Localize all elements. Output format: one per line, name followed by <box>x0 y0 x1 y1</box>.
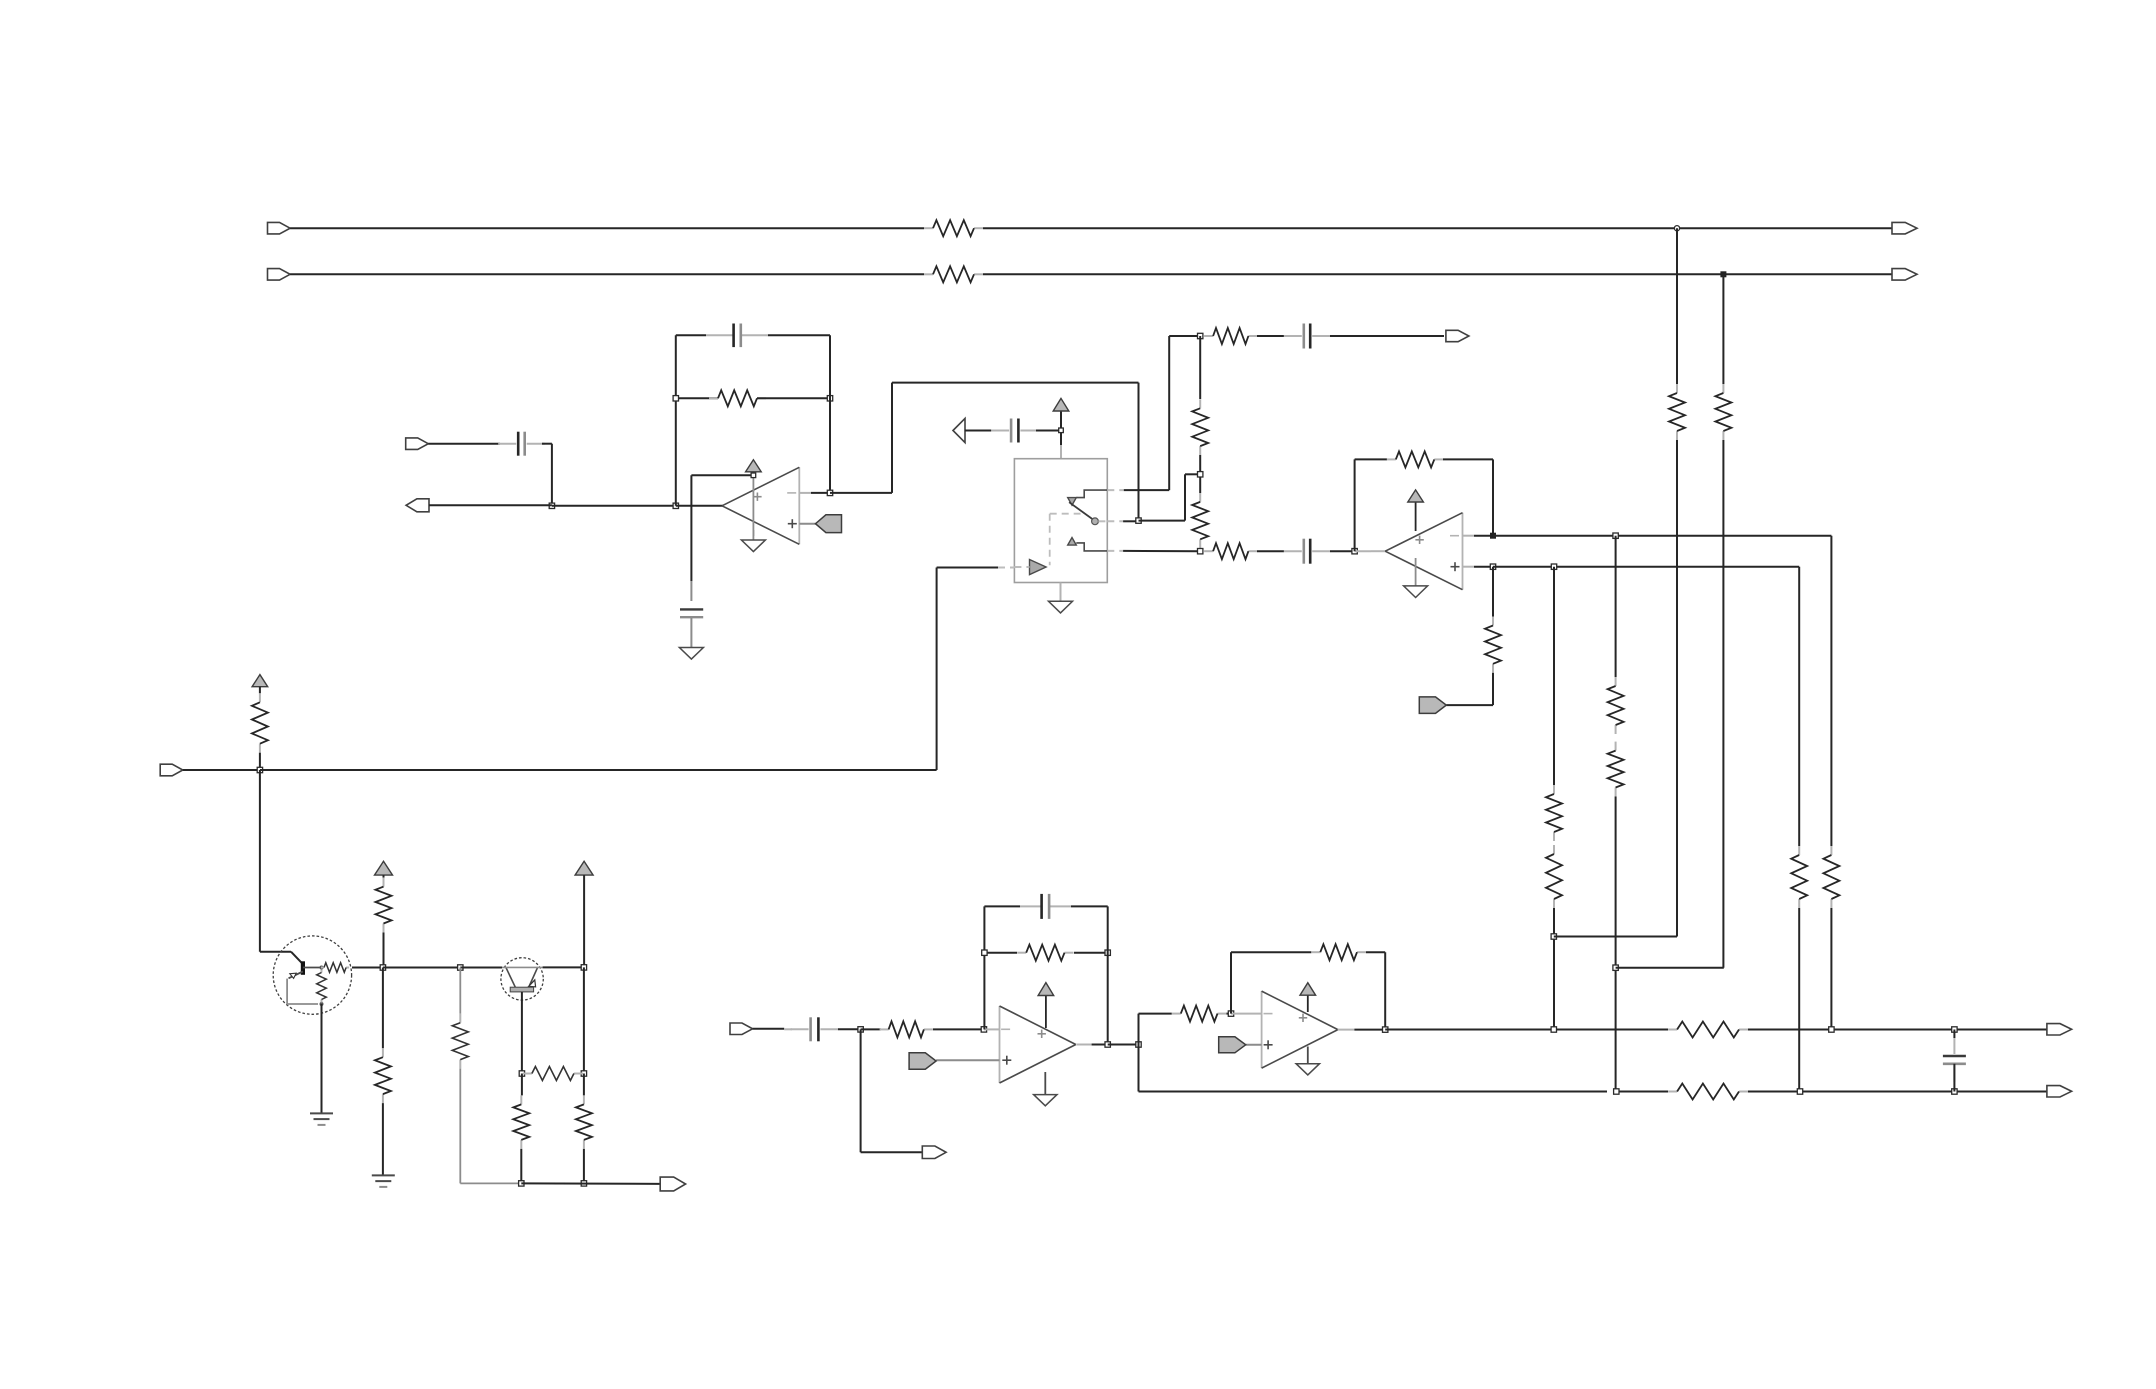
wire U3 fb right vertical <box>1107 906 1109 1044</box>
node junction divider right <box>581 1071 586 1076</box>
U4 output stub <box>1338 1029 1355 1031</box>
node junction U3 out fb <box>1105 1042 1110 1047</box>
wire vertical D lower <box>1830 908 1832 1029</box>
wire line2 left segment <box>290 273 924 275</box>
resistor R11 (drop from line2) <box>1722 384 1724 393</box>
op-amp U2 (mirrored) <box>1462 513 1464 590</box>
wire vertical B lower <box>1615 797 1617 1092</box>
U1 minus symbol <box>787 492 796 494</box>
connector J13 (bottom output 1) <box>2047 1024 2072 1035</box>
capacitor C3 (U1 bypass) <box>680 608 703 610</box>
wire C9 upper <box>1953 1030 1955 1039</box>
resistor R14 (vertical B upper) <box>1615 677 1617 686</box>
resistor R21 (col2 upper) <box>383 878 385 887</box>
wire U2 plus branch upper <box>1492 567 1494 617</box>
power arrow VCC col3 <box>575 861 593 875</box>
Q2 emitter arrowhead <box>529 980 536 987</box>
resistor R28 (U3 feedback) <box>1017 952 1026 954</box>
wire C4 to VCC node <box>1036 430 1059 432</box>
wire J9 to node <box>183 769 260 771</box>
node junction rail2 left <box>519 1181 524 1186</box>
wire dropper lower <box>459 1069 461 1184</box>
node junction rail/col2 <box>380 965 385 970</box>
wire NO dashed outside <box>1107 550 1123 552</box>
node junction minus/vertB <box>1613 533 1618 538</box>
wire R7 to C6 <box>1257 550 1284 552</box>
wire line1 left segment <box>290 227 924 229</box>
wire line2 bottom left-mid <box>1616 1091 1668 1093</box>
connector J8 (row 336 output) <box>1446 330 1469 341</box>
wire VCC to R18 <box>259 687 261 694</box>
U4 plus stub <box>1246 1044 1262 1046</box>
wire split down <box>1138 1045 1140 1092</box>
wire rail to Q2 <box>460 967 502 969</box>
resistor R8 (U2 feedback) <box>1387 458 1396 460</box>
Q2 left leg <box>506 967 515 987</box>
node junction NO row <box>1198 549 1203 554</box>
resistor R22 (col2 lower) <box>382 1048 384 1057</box>
node junction U3 minus <box>981 1027 986 1032</box>
node junction U3 input split <box>858 1027 863 1032</box>
wire line2 right segment <box>983 273 1892 275</box>
U1 plus symbol <box>788 523 797 525</box>
resistor R15 (vertical B lower) <box>1615 742 1617 751</box>
Q1 emitter path <box>286 979 288 1004</box>
resistor R18 (input pull-up) <box>259 693 261 702</box>
U2 internal power line <box>1415 502 1417 531</box>
resistor R7 (row 551) <box>1204 550 1213 552</box>
wire bypass vertical <box>690 475 692 581</box>
wire common to column <box>1139 520 1186 522</box>
wire U2 fb top left <box>1355 458 1387 460</box>
U2 internal power plus <box>1415 539 1423 541</box>
node junction U3 out split <box>1136 1042 1141 1047</box>
Q2 right leg <box>530 967 538 985</box>
net flag U3 reference <box>909 1053 936 1069</box>
connector J1 (top-left input, line 1) <box>268 222 291 234</box>
resistor R17 (vertical D) <box>1830 846 1832 855</box>
resistor R31 (line1 bottom) <box>1668 1029 1677 1031</box>
node junction plus/vertA <box>1551 564 1556 569</box>
resistor R13 (vertical A lower) <box>1553 845 1555 854</box>
connector J7 (relay VCC ref, left) <box>953 418 965 442</box>
capacitor C7 (U3 input) <box>791 1028 809 1030</box>
wire base drop <box>259 770 261 952</box>
transistor Q1 body circle <box>273 936 351 1014</box>
node junction rail/dropper <box>458 965 463 970</box>
power arrow VCC U4 <box>1300 983 1316 996</box>
wire U4 fb left vertical <box>1230 952 1232 1013</box>
wire VCC col3 down <box>583 875 585 967</box>
node junction A crosslink <box>1551 934 1556 939</box>
node junction U3 fb right <box>1105 950 1110 955</box>
U3 internal power line <box>1045 996 1047 1029</box>
relay bottom pin <box>1060 583 1062 602</box>
Q1 emitter leg <box>289 972 303 979</box>
resistor R27 (U3 input) <box>880 1028 889 1030</box>
wire Q1 emitter to ground <box>321 1004 323 1113</box>
resistor R5 (column lower) <box>1199 493 1201 502</box>
wire coil dashed segment <box>998 567 1014 569</box>
wire J5 to C1 <box>428 443 500 445</box>
Q1 pin dot collector node <box>320 966 324 970</box>
wire U3 fb res row left <box>984 952 1017 954</box>
node junction on line2 at x=1723 <box>1721 272 1726 277</box>
node junction input/J6 <box>549 503 554 508</box>
relay NO contact step <box>1076 543 1107 551</box>
node junction common / U1-net <box>1136 518 1141 523</box>
node junction line1/C9 <box>1952 1027 1957 1032</box>
wire U2 plus branch lower <box>1492 673 1494 705</box>
resistor R4 (column upper) <box>1199 399 1201 408</box>
node junction U4 minus <box>1228 1011 1233 1016</box>
earth ground col2 <box>372 1174 395 1176</box>
relay switch lever <box>1069 502 1093 519</box>
wire NC dashed outside <box>1107 489 1124 491</box>
U1 plus pin stub <box>799 523 815 525</box>
resistor R26 (right leg) <box>583 1095 585 1104</box>
U2 plus pin stub <box>1462 566 1474 568</box>
wire line1 right segment <box>983 227 1892 229</box>
wire crosslink A <box>1554 936 1677 938</box>
U4 internal power plus <box>1299 1017 1307 1019</box>
U2 ground stub <box>1415 558 1417 586</box>
wire U1 output runs <box>830 492 892 494</box>
op-amp U3 <box>999 1006 1001 1083</box>
power arrow VCC U2 <box>1408 490 1424 502</box>
capacitor C5 (row 336) <box>1284 335 1302 337</box>
resistor R1 (line 1 series) <box>924 227 933 229</box>
wire R6 to C5 <box>1257 335 1284 337</box>
U3 minus symbol <box>1001 1028 1010 1030</box>
resistor R29 (U3-U4 link) <box>1172 1013 1181 1015</box>
wire J6 node line <box>429 504 552 506</box>
node junction R3 right <box>827 396 832 401</box>
wire rail segment <box>383 967 460 969</box>
resistor R30 (U4 feedback) <box>1311 951 1320 953</box>
power terminal square U1 <box>751 473 756 478</box>
node junction line2/C9 <box>1952 1089 1957 1094</box>
Q2 base pin down <box>521 992 523 1074</box>
wire U3 fb left vertical <box>983 906 985 1029</box>
resistor R10 (drop from line1) <box>1676 384 1678 393</box>
wire R29 to U4 minus <box>1227 1013 1232 1015</box>
wire line1 bottom left <box>1385 1029 1668 1031</box>
ground symbol U2 <box>1404 586 1428 598</box>
wire node to U1 apex <box>676 505 723 507</box>
U4 ground stub <box>1307 1047 1309 1064</box>
wire U2 fb left vertical <box>1354 459 1356 551</box>
wire tap down <box>860 1029 862 1152</box>
resistor R2 (line 2 series) <box>924 273 933 275</box>
wire vertical C <box>1798 567 1800 846</box>
ground symbol U3 <box>1034 1095 1057 1106</box>
node junction line2/vertB <box>1614 1089 1619 1094</box>
U2 plus symbol <box>1451 566 1460 568</box>
node junction B crosslink <box>1613 965 1618 970</box>
wire U3 fb res row right <box>1074 952 1108 954</box>
net flag U4 reference <box>1219 1037 1246 1053</box>
wire Q1 collector out <box>352 967 383 969</box>
capacitor C1 (input coupling) <box>498 443 516 445</box>
wire gray dropper <box>459 968 461 1014</box>
capacitor C6 (row 551) <box>1284 550 1302 552</box>
node junction column mid <box>1198 472 1203 477</box>
U1 internal power plus <box>753 496 761 498</box>
power arrow VCC U1 <box>752 472 754 473</box>
resistor R23 (dropper) <box>459 1014 461 1023</box>
wire VCC col2 upper <box>383 875 385 878</box>
wire feedback left vertical <box>675 335 677 506</box>
node junction line1/vertA <box>1551 1027 1556 1032</box>
resistor R9 (U2 ref branch) <box>1492 617 1494 626</box>
connector J4 (top-right output, line 2) <box>1892 269 1917 281</box>
wire right leg lower <box>583 1149 585 1184</box>
power arrow VCC col2 <box>375 861 393 875</box>
capacitor C9 (output filter) <box>1953 1038 1955 1054</box>
wire bottom rail to J10 <box>521 1182 661 1185</box>
wire NO solid <box>1123 550 1200 552</box>
ground symbol bypass <box>679 648 703 660</box>
connector J9 (control input) <box>160 764 183 776</box>
wire C7 to node <box>838 1028 861 1030</box>
node junction divider left <box>519 1071 524 1076</box>
net flag U1 non-inverting ref <box>816 515 842 533</box>
wire U4 minus stub <box>1231 1013 1262 1015</box>
wire control to relay coil <box>260 769 937 771</box>
wire drop line1 lower <box>1676 440 1678 937</box>
connector J2 (top-right output, line 1) <box>1892 222 1917 234</box>
relay NC contact arrowhead <box>1068 498 1077 506</box>
U4 minus symbol <box>1264 1013 1273 1015</box>
connector J3 (top-left input, line 2) <box>268 269 291 281</box>
wire feedback mid-left <box>676 397 718 399</box>
Q1 base-collector node wire <box>303 967 322 969</box>
U2 minus pin stub <box>1462 535 1474 537</box>
ground symbol U4 <box>1296 1064 1319 1075</box>
net flag U2 reference <box>1419 697 1446 714</box>
wire node to R27 <box>861 1028 881 1030</box>
U4 internal power line <box>1307 995 1309 1012</box>
wire column upper segments <box>1199 336 1201 399</box>
node junction U1 output <box>827 490 832 495</box>
wire divider left down <box>521 1074 523 1096</box>
wire vertical D <box>1830 536 1832 846</box>
wire U4 fb top left <box>1231 951 1311 953</box>
wire J11 to C7 <box>753 1028 785 1030</box>
wire vertical B upper <box>1615 536 1617 677</box>
U3 internal power plus <box>1038 1033 1046 1035</box>
node junction U2 input <box>1352 549 1357 554</box>
wire drop line1 x=1677 <box>1676 228 1678 384</box>
relay NO contact arrowhead <box>1068 538 1077 546</box>
wire U2 minus row <box>1493 535 1831 537</box>
U2 minus symbol <box>1450 535 1459 537</box>
node junction line2/vertC <box>1797 1089 1802 1094</box>
connector J6 (output to left) <box>406 499 429 512</box>
node junction U4 output <box>1383 1027 1388 1032</box>
node junction input bias <box>257 767 262 772</box>
capacitor C8 (U3 feedback) <box>1040 894 1043 919</box>
earth ground Q1 <box>310 1112 333 1114</box>
ground symbol relay <box>1049 601 1073 613</box>
Q1 pin dot emitter node <box>320 1002 324 1006</box>
wire Q2 collector out <box>543 966 584 968</box>
wire stub to U3 edge <box>984 1028 1000 1030</box>
wire U3 out to U4 node <box>1108 1044 1139 1046</box>
power terminal square relay <box>1059 428 1064 433</box>
node junction U2 plus <box>1490 564 1495 569</box>
wire R27 to minus node <box>933 1028 984 1030</box>
U3 ground stub <box>1044 1072 1046 1095</box>
wire col2 to rail <box>383 933 385 968</box>
op-amp U4 <box>1261 991 1263 1068</box>
wire C6 to U2 node <box>1330 550 1355 552</box>
relay NC contact step <box>1076 490 1107 498</box>
wire VCC bypass horizontal <box>691 474 750 476</box>
wire U4 fb top right <box>1366 951 1385 953</box>
connector J14 (bottom output 2) <box>2047 1086 2072 1097</box>
node junction feedback left leg <box>673 503 678 508</box>
wire C1 to corner <box>542 443 552 445</box>
power arrow VCC relay <box>1060 411 1062 428</box>
wire vertical A upper <box>1553 567 1555 785</box>
power arrow VCC input bias <box>252 675 268 687</box>
node junction U2 output <box>1491 533 1496 538</box>
resistor R19 (Q1 internal vertical) <box>321 970 323 973</box>
Q1 base bar <box>301 961 305 975</box>
capacitor C2 (U1 feedback) <box>732 324 735 348</box>
wire feedback mid-right <box>757 397 830 399</box>
resistor R24 (base divider) <box>523 1073 532 1075</box>
U4 plus symbol <box>1264 1044 1273 1046</box>
wire bypass to ground <box>690 617 692 647</box>
wire column top node <box>1169 335 1200 337</box>
wire VCC into relay box <box>1060 433 1062 445</box>
connector J10 (sense output) <box>660 1177 685 1191</box>
wire col3 lower <box>583 967 585 1073</box>
node junction U3 fb left <box>982 950 987 955</box>
wire col2 lower <box>382 968 384 1049</box>
wire col2 to earth <box>382 1103 384 1175</box>
Q2 base bar <box>510 987 533 992</box>
node junction R3 left <box>673 396 678 401</box>
wire column lower segments <box>1199 477 1201 493</box>
connector J11 (U3 input) <box>730 1023 753 1035</box>
connector J12 (tap output) <box>922 1146 946 1159</box>
wire left leg lower <box>520 1149 522 1184</box>
wire split up <box>1138 1014 1140 1045</box>
wire vertical C lower <box>1798 908 1800 1092</box>
wire divider right down <box>583 1074 585 1096</box>
node junction rail2 right <box>581 1181 586 1186</box>
ground symbol U1 <box>741 540 765 552</box>
connector J5 (U1 stage input) <box>406 438 429 450</box>
transistor Q2 body circle <box>501 958 543 1000</box>
node junction on line1 at x=1677 <box>1674 226 1679 231</box>
relay K1 body <box>1014 459 1107 583</box>
wire crosslink B <box>1616 967 1724 969</box>
wire common dashed outside <box>1107 520 1123 522</box>
wire U2 plus row <box>1493 566 1799 568</box>
U3 plus symbol <box>1002 1059 1011 1061</box>
resistor R12 (vertical A upper) <box>1553 785 1555 794</box>
resistor R3 (U1 feedback) <box>709 397 718 399</box>
capacitor C4 (relay bypass) <box>991 430 1009 432</box>
relay common dashed to edge <box>1098 520 1107 522</box>
wire line1 bottom right <box>1748 1029 2047 1031</box>
Q1 emitter arrowhead <box>290 973 296 978</box>
U3 plus pin stub <box>936 1059 999 1061</box>
U1 ground stub <box>752 530 754 540</box>
resistor R20 (Q1 collector) <box>321 967 324 969</box>
node junction line1/vertD <box>1829 1027 1834 1032</box>
wire R18 to input node <box>259 753 261 770</box>
resistor R6 (row 336) <box>1204 335 1213 337</box>
wire vertical A lower <box>1553 908 1555 1029</box>
relay coil dashed stub <box>1014 566 1029 568</box>
power arrow VCC U3 <box>1038 983 1054 996</box>
wire C9 lower <box>1953 1064 1955 1092</box>
wire U2 fb top right <box>1443 458 1493 460</box>
node junction rail/col3 <box>581 965 586 970</box>
wire to U2 apex <box>1355 550 1371 552</box>
relay coil input arrowhead <box>1030 560 1047 575</box>
wire J7 to C4 <box>965 430 992 432</box>
resistor R16 (vertical C) <box>1798 846 1800 855</box>
relay armature dashed link <box>1050 513 1081 515</box>
node junction top row <box>1198 333 1203 338</box>
Q2 through wire <box>502 966 543 968</box>
op-amp U1 (mirrored) <box>798 467 800 544</box>
wire feedback top rail <box>676 334 706 336</box>
U1 minus pin stub <box>799 492 811 494</box>
U3 output stub <box>1076 1044 1091 1046</box>
wire C5 to J8 <box>1330 335 1444 337</box>
wire NC to column <box>1124 489 1169 491</box>
wire U3 fb top <box>984 905 1020 907</box>
wire drop line2 lower <box>1722 440 1724 968</box>
wire feedback right vertical <box>829 335 831 493</box>
U1 internal power line <box>752 478 754 536</box>
relay pivot circle <box>1092 518 1099 525</box>
resistor R25 (left leg) <box>520 1095 522 1104</box>
resistor R32 (line2 bottom) <box>1668 1091 1677 1093</box>
wire line2 bottom right <box>1748 1091 2047 1093</box>
wire common solid <box>1123 520 1138 522</box>
wire drop line2 x=1723 <box>1722 274 1724 384</box>
